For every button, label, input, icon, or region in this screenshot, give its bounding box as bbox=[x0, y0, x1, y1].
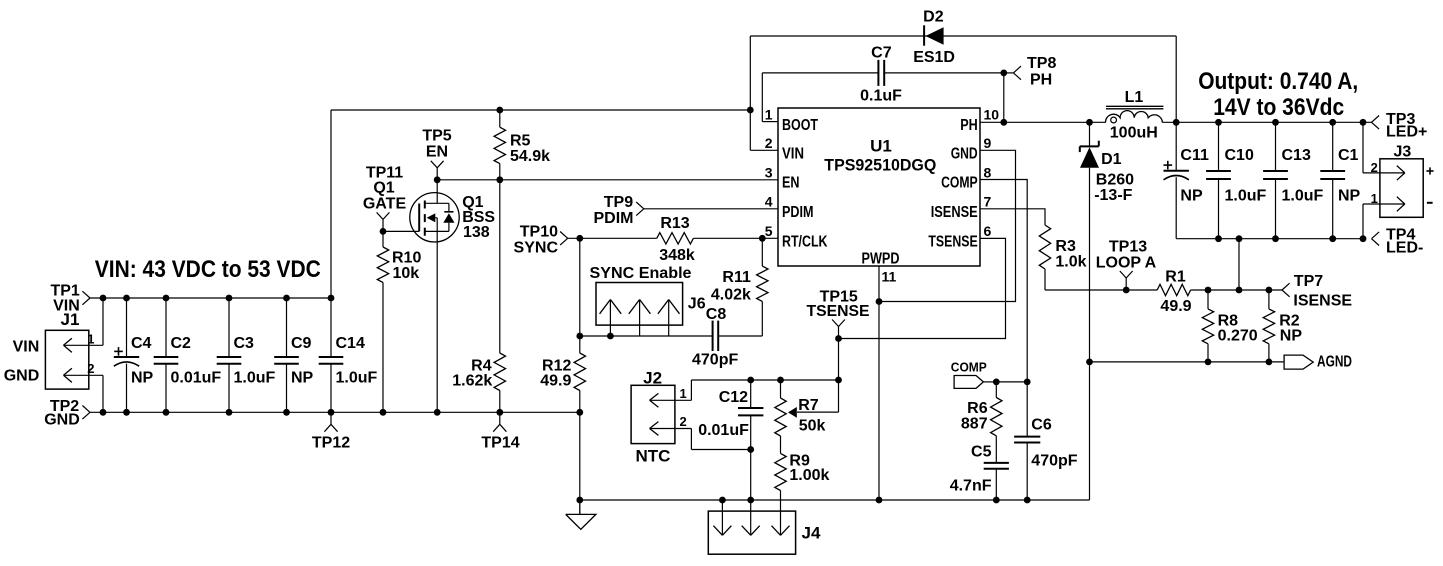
svg-text:0.01uF: 0.01uF bbox=[171, 370, 222, 387]
svg-text:LOOP A: LOOP A bbox=[1096, 254, 1157, 271]
capacitor C9 NP bbox=[286, 298, 288, 357]
capacitor C13 1.0uF bbox=[1275, 122, 1277, 171]
testpoint TP3 LED+ bbox=[1372, 116, 1380, 123]
node ISENSE sense wire bbox=[1045, 289, 1157, 291]
svg-text:B260: B260 bbox=[1096, 172, 1134, 189]
capacitor C8 470pF bbox=[712, 321, 714, 351]
J6 pin 1 arrow bbox=[609, 300, 611, 337]
capacitor C3 1.0uF bbox=[228, 298, 230, 357]
svg-text:887: 887 bbox=[961, 416, 988, 433]
svg-text:C10: C10 bbox=[1225, 147, 1254, 164]
wire COMP pin 8 down bbox=[980, 180, 1027, 382]
wire TP15 node down to R7 wiper bbox=[838, 339, 840, 413]
svg-text:C1: C1 bbox=[1338, 147, 1359, 164]
wire VIN rail to U1 VIN pin bbox=[750, 149, 778, 151]
svg-text:348k: 348k bbox=[659, 247, 695, 264]
svg-text:L1: L1 bbox=[1125, 89, 1144, 106]
svg-text:C7: C7 bbox=[871, 44, 892, 61]
svg-text:1.62k: 1.62k bbox=[452, 373, 492, 390]
svg-text:3: 3 bbox=[765, 164, 773, 180]
svg-text:PDIM: PDIM bbox=[782, 204, 814, 221]
svg-text:J4: J4 bbox=[802, 523, 821, 542]
testpoint TP4 LED- bbox=[1372, 232, 1380, 239]
svg-text:C6: C6 bbox=[1031, 417, 1052, 434]
svg-text:C14: C14 bbox=[336, 335, 365, 352]
resistor R10 10k bbox=[382, 231, 384, 247]
transistor Q1 BSS138 mosfet bbox=[410, 193, 459, 242]
svg-text:1.0k: 1.0k bbox=[1055, 254, 1086, 271]
svg-text:NP: NP bbox=[1180, 187, 1203, 204]
svg-text:GND: GND bbox=[4, 368, 40, 385]
svg-text:49.9: 49.9 bbox=[1160, 298, 1191, 315]
svg-text:5: 5 bbox=[765, 223, 773, 239]
wire Q1 gate bbox=[383, 230, 419, 232]
svg-text:1.0uF: 1.0uF bbox=[234, 370, 276, 387]
svg-text:54.9k: 54.9k bbox=[510, 148, 550, 165]
svg-text:R5: R5 bbox=[510, 133, 531, 150]
svg-text:R1: R1 bbox=[1165, 269, 1186, 286]
diode D1 B260-13-F schottky bbox=[1089, 122, 1091, 146]
J4 pin 2 arrowhead bbox=[742, 526, 751, 536]
J1 pin 2 bbox=[64, 374, 104, 376]
svg-text:-13-F: -13-F bbox=[1094, 187, 1132, 204]
svg-text:TP8: TP8 bbox=[1027, 55, 1056, 72]
svg-text:RT/CLK: RT/CLK bbox=[782, 233, 828, 250]
svg-text:J6: J6 bbox=[688, 296, 706, 313]
svg-text:R7: R7 bbox=[798, 397, 819, 414]
svg-text:2: 2 bbox=[765, 135, 773, 151]
svg-text:100uH: 100uH bbox=[1110, 125, 1158, 142]
svg-text:10: 10 bbox=[984, 107, 1000, 123]
wire R12 node down to bottom GND rail bbox=[579, 412, 581, 500]
svg-text:GND: GND bbox=[44, 411, 80, 428]
J4 pin 1 arrow bbox=[721, 500, 723, 535]
svg-text:0.1uF: 0.1uF bbox=[860, 87, 902, 104]
net flag AGND bbox=[1284, 355, 1313, 369]
diode D2 ES1D bbox=[923, 25, 925, 45]
svg-text:7: 7 bbox=[984, 194, 992, 210]
svg-text:Q1: Q1 bbox=[373, 179, 394, 196]
wire TP9 to PDIM pin bbox=[644, 208, 778, 210]
wire SYNC node down to J6 rail bbox=[579, 238, 581, 336]
resistor R13 348k bbox=[657, 233, 694, 244]
svg-text:C12: C12 bbox=[719, 389, 748, 406]
svg-text:PDIM: PDIM bbox=[594, 210, 634, 227]
svg-text:VIN: VIN bbox=[782, 146, 804, 163]
svg-text:C4: C4 bbox=[131, 335, 152, 352]
svg-text:R11: R11 bbox=[722, 269, 751, 286]
svg-text:NP: NP bbox=[1338, 187, 1361, 204]
connector J2 NTC bbox=[631, 385, 675, 443]
capacitor C7 0.1uF bbox=[762, 72, 878, 74]
capacitor C10 1.0uF bbox=[1218, 122, 1220, 171]
svg-text:0.270: 0.270 bbox=[1218, 327, 1258, 344]
wire J1 pin1 to VIN rail junction bbox=[100, 295, 107, 302]
svg-text:1: 1 bbox=[680, 386, 687, 401]
J3 pin 2 LED+ bbox=[1362, 122, 1364, 173]
svg-text:C3: C3 bbox=[234, 335, 255, 352]
resistor R12 49.9 bbox=[574, 353, 585, 391]
svg-text:C9: C9 bbox=[291, 335, 312, 352]
resistor R9 1.00k bbox=[780, 436, 782, 453]
testpoint TP1 VIN bbox=[82, 291, 90, 298]
svg-text:49.9: 49.9 bbox=[540, 373, 571, 390]
wire J2 pin2 to C12 bottom bbox=[691, 449, 750, 451]
svg-text:TP9: TP9 bbox=[604, 194, 633, 211]
svg-text:J3: J3 bbox=[1394, 144, 1412, 161]
wire PWPD pin 11 to GND rail bbox=[878, 266, 880, 500]
svg-text:SYNC: SYNC bbox=[514, 239, 559, 256]
capacitor C11 NP polarized bbox=[1175, 122, 1177, 171]
svg-text:SYNC Enable: SYNC Enable bbox=[590, 265, 692, 282]
resistor R3 1.0k bbox=[1039, 225, 1050, 269]
resistor R4 1.62k bbox=[499, 180, 501, 353]
J2 pin 1 bbox=[650, 399, 692, 401]
svg-text:1.0uF: 1.0uF bbox=[1225, 187, 1267, 204]
capacitor C5 4.7nF bbox=[984, 462, 1009, 464]
wire top VIN rail bbox=[331, 109, 750, 111]
svg-text:NTC: NTC bbox=[636, 446, 671, 465]
svg-text:TP14: TP14 bbox=[481, 435, 519, 452]
svg-text:NP: NP bbox=[291, 370, 314, 387]
node LED- return rail bbox=[1176, 238, 1363, 240]
svg-text:GATE: GATE bbox=[363, 196, 407, 213]
capacitor C14 1.0uF bbox=[330, 298, 332, 357]
svg-text:4.7nF: 4.7nF bbox=[950, 478, 992, 495]
svg-text:EN: EN bbox=[782, 175, 800, 192]
svg-text:11: 11 bbox=[882, 269, 897, 285]
resistor R5 54.9k bbox=[499, 110, 501, 127]
svg-text:4: 4 bbox=[765, 194, 773, 210]
wire D2 top loop bbox=[750, 35, 1176, 37]
svg-text:1: 1 bbox=[765, 107, 773, 123]
testpoint TP10 SYNC bbox=[560, 232, 568, 239]
svg-text:1.0uF: 1.0uF bbox=[1282, 187, 1324, 204]
capacitor C1 NP bbox=[1332, 122, 1334, 171]
node bottom GND rail bbox=[580, 499, 1090, 501]
capacitor C4 NP bbox=[126, 298, 128, 357]
svg-text:TP5: TP5 bbox=[422, 128, 451, 145]
svg-text:ISENSE: ISENSE bbox=[1293, 292, 1352, 309]
svg-text:D1: D1 bbox=[1101, 151, 1122, 168]
capacitor C12 0.01uF bbox=[750, 380, 752, 408]
wire D2 return to PH output rail bbox=[1175, 36, 1177, 122]
svg-text:C2: C2 bbox=[171, 335, 192, 352]
svg-text:TP12: TP12 bbox=[312, 435, 350, 452]
svg-text:NP: NP bbox=[131, 370, 154, 387]
svg-text:EN: EN bbox=[426, 144, 448, 161]
resistor R2 NP bbox=[1268, 290, 1270, 309]
svg-text:1: 1 bbox=[1371, 191, 1378, 206]
node GND input rail bbox=[90, 411, 580, 413]
resistor R8 0.270 bbox=[1207, 290, 1209, 309]
connector J3 bbox=[1380, 159, 1423, 218]
wire TSENSE pin 6 to TP15 bbox=[839, 238, 1006, 338]
svg-text:TPS92510DGQ: TPS92510DGQ bbox=[824, 156, 936, 175]
wire COMP node bbox=[996, 381, 1027, 383]
svg-text:ISENSE: ISENSE bbox=[931, 204, 978, 221]
wire PH pin to L1 bbox=[980, 121, 1106, 123]
capacitor C2 0.01uF bbox=[165, 298, 167, 357]
svg-text:COMP: COMP bbox=[941, 175, 978, 192]
J3 pin 1 LED- bbox=[1362, 204, 1364, 239]
svg-text:NP: NP bbox=[1280, 327, 1303, 344]
J6 pin 3 arrow bbox=[668, 300, 670, 337]
testpoint TP11 Q1 GATE bbox=[380, 228, 387, 235]
wire L1 to output rail bbox=[1162, 121, 1371, 123]
svg-text:1: 1 bbox=[87, 331, 94, 346]
svg-text:4.02k: 4.02k bbox=[711, 287, 751, 304]
J4 pin 3 arrowhead bbox=[772, 526, 781, 536]
svg-text:BOOT: BOOT bbox=[782, 117, 818, 134]
wire J1 pin2 to GND rail junction bbox=[100, 409, 107, 416]
testpoint TP2 GND bbox=[82, 406, 90, 413]
svg-text:2: 2 bbox=[680, 414, 687, 429]
svg-text:9: 9 bbox=[984, 135, 992, 151]
connector J4 bbox=[708, 511, 795, 554]
potentiometer R7 50k bbox=[780, 380, 782, 398]
testpoint TP8 PH bbox=[1000, 70, 1007, 77]
ground symbol bbox=[579, 500, 581, 514]
svg-text:C11: C11 bbox=[1180, 147, 1209, 164]
wire SYNC to RT/CLK bbox=[568, 237, 657, 239]
testpoint TP13 LOOP A bbox=[1125, 278, 1127, 290]
node AGND wire bbox=[1090, 361, 1285, 363]
svg-text:COMP: COMP bbox=[951, 359, 987, 374]
svg-text:138: 138 bbox=[463, 224, 490, 241]
svg-text:R10: R10 bbox=[392, 250, 421, 267]
svg-text:LED-: LED- bbox=[1386, 240, 1423, 257]
svg-text:PH: PH bbox=[960, 117, 978, 134]
inductor L1 100uH bbox=[1105, 111, 1162, 123]
wire ISENSE pin 7 to R3 bbox=[980, 209, 1045, 225]
svg-text:14V to 36Vdc: 14V to 36Vdc bbox=[1213, 94, 1344, 121]
svg-text:C8: C8 bbox=[706, 306, 727, 323]
wire riser from VIN input rail to top VIN rail bbox=[330, 110, 332, 298]
svg-text:2: 2 bbox=[87, 361, 94, 376]
svg-text:ES1D: ES1D bbox=[913, 49, 955, 66]
J1 pin 1 bbox=[64, 344, 104, 346]
resistor R6 887 bbox=[995, 382, 997, 398]
svg-text:LED+: LED+ bbox=[1386, 124, 1427, 141]
testpoint TP12 bbox=[330, 412, 332, 424]
svg-text:GND: GND bbox=[951, 146, 978, 163]
svg-text:AGND: AGND bbox=[1317, 354, 1352, 371]
connector J1 bbox=[45, 330, 88, 389]
resistor R11 4.02k bbox=[757, 266, 768, 301]
svg-text:TP7: TP7 bbox=[1294, 273, 1323, 290]
svg-text:50k: 50k bbox=[799, 418, 826, 435]
J2 pin 2 bbox=[650, 428, 692, 430]
svg-text:0.01uF: 0.01uF bbox=[698, 422, 749, 439]
svg-text:TSENSE: TSENSE bbox=[928, 233, 978, 250]
svg-text:D2: D2 bbox=[923, 8, 944, 25]
svg-text:PWPD: PWPD bbox=[862, 251, 900, 268]
svg-text:6: 6 bbox=[984, 223, 992, 239]
wire J6 rail to C8 bbox=[580, 335, 713, 337]
svg-text:PH: PH bbox=[1030, 72, 1052, 89]
svg-text:VIN: 43 VDC to 53 VDC: VIN: 43 VDC to 53 VDC bbox=[95, 256, 321, 283]
svg-text:R13: R13 bbox=[660, 215, 689, 232]
RT/CLK node junction with R11 bbox=[759, 235, 766, 242]
wire GND pin 9 to PWPD bbox=[879, 150, 1016, 301]
J6 pin 2 arrow bbox=[639, 300, 641, 337]
svg-text:R6: R6 bbox=[967, 400, 988, 417]
Q1 source junction on GND rail bbox=[434, 409, 441, 416]
svg-text:U1: U1 bbox=[870, 136, 892, 155]
svg-text:1.0uF: 1.0uF bbox=[336, 370, 378, 387]
wire TP8 down to PH rail bbox=[1003, 73, 1005, 122]
svg-text:TSENSE: TSENSE bbox=[807, 303, 870, 320]
testpoint TP7 ISENSE bbox=[1282, 283, 1290, 290]
svg-text:470pF: 470pF bbox=[692, 352, 738, 369]
svg-text:J1: J1 bbox=[61, 310, 80, 329]
svg-text:C13: C13 bbox=[1282, 147, 1311, 164]
svg-text:470pF: 470pF bbox=[1031, 453, 1077, 470]
svg-text:C5: C5 bbox=[971, 444, 992, 461]
testpoint TP14 bbox=[499, 412, 501, 424]
svg-text:Output: 0.740 A,: Output: 0.740 A, bbox=[1198, 68, 1358, 95]
svg-text:2: 2 bbox=[1371, 160, 1378, 175]
capacitor C6 470pF bbox=[1026, 382, 1028, 437]
testpoint TP5 EN bbox=[436, 168, 438, 180]
op-amp U1 TPS92510DGQ body bbox=[778, 108, 980, 266]
svg-text:TP10: TP10 bbox=[520, 223, 558, 240]
svg-text:J2: J2 bbox=[643, 368, 662, 387]
node VIN input rail bbox=[90, 297, 331, 299]
wire C8 up to RT/CLK via R11 bbox=[761, 301, 763, 336]
svg-text:TP13: TP13 bbox=[1109, 238, 1147, 255]
svg-text:10k: 10k bbox=[393, 265, 420, 282]
svg-text:R3: R3 bbox=[1055, 238, 1076, 255]
svg-text:8: 8 bbox=[984, 164, 992, 180]
testpoint TP15 TSENSE bbox=[835, 335, 842, 342]
wire output return down to ISENSE node bbox=[1238, 239, 1240, 290]
svg-text:1.00k: 1.00k bbox=[789, 467, 829, 484]
testpoint TP9 PDIM bbox=[636, 202, 644, 209]
node EN rail bbox=[437, 179, 779, 181]
wire BOOT pin to C7 bbox=[762, 121, 778, 123]
wire R7 top rail bbox=[691, 379, 838, 381]
svg-text:VIN: VIN bbox=[13, 339, 40, 356]
resistor R1 49.9 bbox=[1157, 284, 1190, 295]
